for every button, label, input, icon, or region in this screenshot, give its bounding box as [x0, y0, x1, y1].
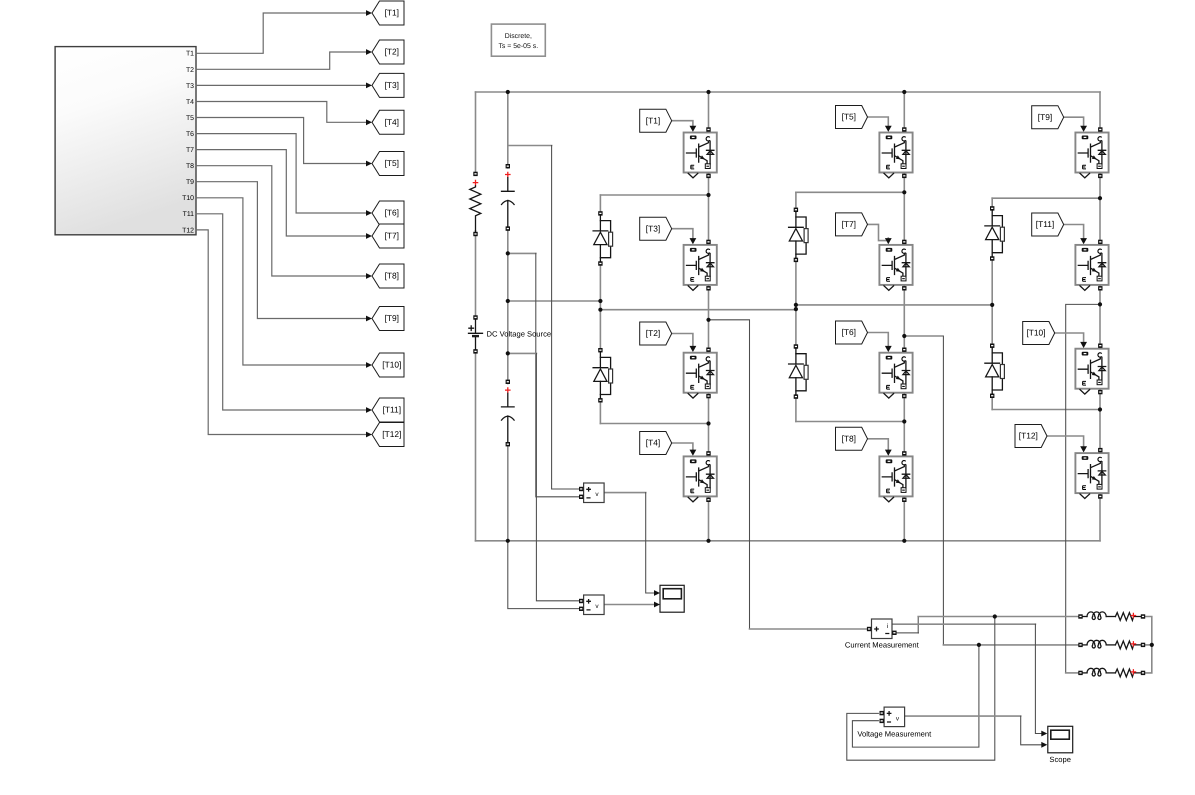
- phase A wire into Current Measurement: [750, 628, 867, 630]
- capacitor C1 (upper DC link): [501, 164, 515, 231]
- CM signal down to Scope in1: [1035, 624, 1041, 733]
- leg B clamp top connection: [796, 191, 904, 193]
- wire arrow into [T5]: [366, 161, 372, 167]
- gate arrow into IGBT T6: [885, 346, 892, 352]
- goto tag [T9]: [372, 307, 404, 331]
- gate wire [T4] to IGBT T4: [672, 443, 693, 450]
- IGBT T4 (IGBT/Diode block): [684, 451, 717, 502]
- wire port T11 to goto tag [T11]: [196, 214, 367, 410]
- goto tag [T10]: [372, 353, 404, 377]
- IGBT T11 (IGBT/Diode block): [1075, 240, 1108, 291]
- wire arrow into [T9]: [366, 316, 372, 322]
- from tag [T9]: [1032, 106, 1064, 129]
- VoltMeas signal to Scope in2: [1021, 716, 1041, 745]
- from tag [T10]: [1023, 322, 1055, 345]
- svg-text:T5: T5: [186, 115, 194, 122]
- IGBT T6 (IGBT/Diode block): [879, 348, 912, 399]
- svg-text:T7: T7: [186, 147, 194, 154]
- svg-text:[T8]: [T8]: [385, 271, 399, 281]
- svg-text:T4: T4: [186, 99, 194, 106]
- gate wire [T7] to IGBT T7: [868, 224, 889, 240]
- from tag [T12]: [1015, 425, 1047, 448]
- wire arrow into [T10]: [366, 362, 372, 368]
- VoltMeas output wire: [905, 715, 1021, 717]
- svg-text:Ts = 5e-05 s.: Ts = 5e-05 s.: [498, 43, 538, 50]
- gate wire [T5] to IGBT T5: [868, 117, 889, 126]
- svg-text:[T4]: [T4]: [646, 438, 660, 448]
- wire neutral to VM2 + input: [508, 352, 537, 354]
- wire arrow into [T1]: [366, 10, 372, 16]
- from tag [T11]: [1032, 213, 1064, 236]
- IGBT T12 (IGBT/Diode block): [1075, 448, 1108, 499]
- wire cap1 bottom to VM1 - input: [508, 252, 536, 254]
- Voltage Measurement VM2 (lower cap): [579, 595, 604, 615]
- svg-text:[T5]: [T5]: [842, 112, 856, 122]
- svg-text:[T11]: [T11]: [1036, 219, 1054, 229]
- wire junction dots: [506, 90, 1154, 647]
- CM output wire: [895, 632, 918, 634]
- svg-text:T10: T10: [182, 195, 194, 202]
- load phase b right wire: [1143, 644, 1152, 646]
- neutral bus: clamp A to clamp B: [600, 309, 796, 311]
- goto tag [T4]: [372, 110, 404, 134]
- scope arrow VM1: [654, 590, 660, 596]
- phase C wire to load: [1066, 672, 1079, 674]
- from tag [T5]: [836, 106, 868, 129]
- leg B clamp column wire: [795, 192, 797, 421]
- wire port T5 to goto tag [T5]: [196, 118, 367, 164]
- wire arrow into [T3]: [366, 83, 372, 89]
- leg C phase rail: [1099, 92, 1101, 541]
- gate wire [T9] to IGBT T9: [1064, 117, 1084, 126]
- IGBT T8 (IGBT/Diode block): [879, 451, 912, 502]
- svg-text:[T1]: [T1]: [385, 8, 399, 18]
- svg-text:[T2]: [T2]: [385, 47, 399, 57]
- IGBT T10 (IGBT/Diode block): [1075, 344, 1108, 395]
- svg-text:[T8]: [T8]: [842, 434, 856, 444]
- wire port T6 to goto tag [T6]: [196, 134, 367, 213]
- wire port T9 to goto tag [T9]: [196, 182, 367, 319]
- wire down to VM1 - input: [536, 253, 579, 496]
- phase C output wire: [1066, 304, 1100, 673]
- scope arrow in2: [1041, 742, 1047, 748]
- wire port T8 to goto tag [T8]: [196, 166, 367, 276]
- gate arrow into IGBT T7: [885, 238, 892, 244]
- wire port T7 to goto tag [T7]: [196, 150, 367, 236]
- subsystem block (pulse generator) with output ports T1-T12: [55, 47, 196, 235]
- wire port T10 to goto tag [T10]: [196, 198, 367, 365]
- svg-text:[T5]: [T5]: [385, 158, 399, 168]
- svg-text:T3: T3: [186, 83, 194, 90]
- VM2 output to scope: [604, 604, 654, 606]
- svg-text:Scope: Scope: [1049, 755, 1071, 764]
- svg-text:[T9]: [T9]: [1038, 112, 1052, 122]
- wire arrow into [T7]: [366, 233, 372, 239]
- goto tag [T1]: [372, 1, 404, 25]
- gate wire [T12] to IGBT T12: [1047, 436, 1084, 446]
- phase A output wire: [709, 320, 750, 629]
- wire port T12 to goto tag [T12]: [196, 230, 367, 435]
- svg-text:Current Measurement: Current Measurement: [845, 640, 920, 649]
- leg A phase rail: [708, 92, 710, 541]
- gate arrow into IGBT T3: [690, 238, 697, 244]
- RL load branch phase B: [1078, 640, 1145, 648]
- svg-text:[T4]: [T4]: [385, 117, 399, 127]
- gate arrow into IGBT T11: [1080, 238, 1087, 244]
- leg C clamp top connection: [992, 197, 1100, 199]
- svg-text:[T7]: [T7]: [385, 231, 399, 241]
- wire down to VM2 + input: [536, 353, 578, 600]
- clamp diode D1 (leg A upper): [592, 211, 614, 265]
- Scope (load): [1048, 726, 1073, 753]
- svg-text:Voltage Measurement: Voltage Measurement: [857, 730, 932, 739]
- capacitor C2 (lower DC link): [501, 380, 515, 447]
- IGBT T2 (IGBT/Diode block): [684, 348, 717, 399]
- leg C clamp bottom connection: [992, 409, 1100, 411]
- from tag [T1]: [640, 109, 672, 132]
- from tag [T3]: [640, 217, 672, 240]
- CM output jog up: [917, 617, 919, 633]
- goto tag [T8]: [372, 264, 404, 288]
- gate wire [T6] to IGBT T6: [868, 333, 889, 346]
- leg B clamp bottom connection: [796, 421, 904, 423]
- neutral bus: clamp B to clamp C: [796, 304, 992, 306]
- VM1 output to scope: [604, 492, 646, 494]
- resistor R (DC link series resistor): [468, 172, 483, 237]
- wire arrow into [T11]: [366, 407, 372, 413]
- svg-text:T11: T11: [183, 211, 195, 218]
- clamp diode D3 (leg B upper): [787, 208, 809, 263]
- gate arrow into IGBT T12: [1080, 446, 1087, 452]
- IGBT T3 (IGBT/Diode block): [684, 240, 717, 291]
- svg-text:[T12]: [T12]: [1019, 431, 1038, 441]
- clamp diode D4 (leg B lower): [787, 344, 809, 399]
- top DC bus: [476, 91, 1101, 93]
- from tag [T7]: [836, 213, 868, 236]
- svg-text:[T7]: [T7]: [842, 219, 856, 229]
- Voltage Measurement block (load): [880, 707, 905, 727]
- gate arrow into IGBT T1: [690, 126, 697, 132]
- leg A clamp bottom connection: [600, 423, 708, 425]
- RL load branch phase C: [1078, 668, 1145, 677]
- from tag [T4]: [640, 432, 672, 455]
- IGBT T1 (IGBT/Diode block): [684, 127, 717, 178]
- clamp diode D2 (leg A lower): [592, 348, 614, 403]
- neutral bus: cap midpoint to clamp A: [508, 300, 601, 302]
- svg-text:[T3]: [T3]: [646, 223, 660, 233]
- gate wire [T11] to IGBT T11: [1064, 225, 1084, 239]
- CM current signal wire: [892, 623, 1035, 625]
- svg-text:i: i: [887, 623, 888, 630]
- svg-text:[T11]: [T11]: [383, 405, 401, 415]
- gate arrow into IGBT T4: [690, 450, 697, 456]
- phase B output wire: [904, 336, 943, 645]
- Scope (DC link voltages): [660, 585, 684, 612]
- from tag [T8]: [836, 427, 868, 450]
- gate arrow into IGBT T2: [690, 346, 697, 352]
- svg-text:T2: T2: [186, 67, 194, 74]
- leg A clamp column wire: [599, 195, 601, 424]
- gate wire [T1] to IGBT T1: [672, 121, 693, 126]
- VoltMeas + input wire from phase a: [847, 617, 995, 761]
- svg-text:[T2]: [T2]: [646, 328, 660, 338]
- IGBT T5 (IGBT/Diode block): [879, 127, 912, 178]
- wire DC- rail to VM2 - input: [508, 541, 579, 609]
- svg-text:[T12]: [T12]: [382, 429, 401, 439]
- wire port T1 to goto tag [T1]: [196, 13, 367, 53]
- DC Voltage Source: [467, 315, 485, 353]
- RL load branch phase A: [1078, 612, 1145, 621]
- goto tag [T11]: [372, 398, 404, 422]
- clamp diode D6 (leg C lower): [984, 344, 1006, 399]
- goto tag [T2]: [372, 40, 404, 64]
- goto tag [T12]: [372, 423, 404, 447]
- goto tag [T7]: [372, 224, 404, 248]
- svg-text:T8: T8: [186, 163, 194, 170]
- gate arrow into IGBT T9: [1080, 126, 1087, 132]
- svg-text:T12: T12: [182, 227, 194, 234]
- IGBT T7 (IGBT/Diode block): [879, 240, 912, 291]
- wire arrow into [T4]: [366, 119, 372, 125]
- VM1 signal down to scope in1: [646, 493, 654, 593]
- clamp diode D5 (leg C upper): [984, 206, 1006, 260]
- wire port T4 to goto tag [T4]: [196, 102, 367, 123]
- svg-text:DC Voltage Source: DC Voltage Source: [487, 330, 552, 339]
- VoltMeas - input wire from phase b: [852, 645, 979, 747]
- gate wire [T2] to IGBT T2: [672, 334, 693, 346]
- wire port T3 to goto tag [T3]: [196, 84, 367, 86]
- from tag [T2]: [640, 322, 672, 345]
- capacitor column wire: [507, 92, 509, 541]
- from tag [T6]: [836, 321, 868, 344]
- svg-text:Discrete,: Discrete,: [505, 33, 532, 40]
- goto tag [T3]: [372, 73, 404, 97]
- svg-text:[T10]: [T10]: [1026, 328, 1045, 338]
- gate wire [T8] to IGBT T8: [868, 439, 889, 450]
- discrete sample-time annotation block: [491, 24, 545, 56]
- svg-text:[T6]: [T6]: [842, 327, 856, 337]
- scope arrow VM2: [654, 602, 660, 608]
- svg-text:[T6]: [T6]: [385, 208, 399, 218]
- goto tag [T5]: [372, 152, 404, 176]
- wire arrow into [T8]: [366, 273, 372, 279]
- leg A clamp top connection: [600, 194, 708, 196]
- gate arrow into IGBT T10: [1080, 342, 1087, 348]
- wire arrow into [T2]: [366, 49, 372, 55]
- Current Measurement block: [867, 619, 897, 639]
- gate arrow into IGBT T5: [885, 126, 892, 132]
- phase B wire to load: [943, 644, 1078, 646]
- svg-text:[T9]: [T9]: [385, 313, 399, 323]
- Voltage Measurement VM1 (upper cap): [579, 483, 604, 503]
- scope arrow in1: [1041, 731, 1047, 737]
- wire DC+ rail to VM1 + input: [508, 145, 552, 147]
- leg C clamp column wire: [991, 198, 993, 409]
- svg-text:[T10]: [T10]: [382, 360, 401, 370]
- wire arrow into [T12]: [366, 432, 372, 438]
- wire down to VM1 + input: [552, 146, 579, 490]
- IGBT T9 (IGBT/Diode block): [1075, 127, 1108, 178]
- goto tag [T6]: [372, 201, 404, 225]
- svg-text:[T3]: [T3]: [385, 80, 399, 90]
- leg B phase rail: [903, 92, 905, 541]
- svg-text:[T1]: [T1]: [646, 115, 660, 125]
- gate wire [T10] to IGBT T10: [1055, 333, 1084, 342]
- bottom DC bus: [476, 540, 1101, 542]
- wire to load phase a: [918, 616, 1078, 618]
- gate arrow into IGBT T8: [885, 450, 892, 456]
- svg-text:T6: T6: [186, 131, 194, 138]
- svg-text:T9: T9: [186, 179, 194, 186]
- wire arrow into [T6]: [366, 210, 372, 216]
- left source column wire: [475, 92, 477, 541]
- load common return wire: [1143, 617, 1152, 673]
- wire port T2 to goto tag [T2]: [196, 52, 367, 69]
- svg-text:T1: T1: [186, 51, 194, 58]
- gate wire [T3] to IGBT T3: [672, 229, 693, 238]
